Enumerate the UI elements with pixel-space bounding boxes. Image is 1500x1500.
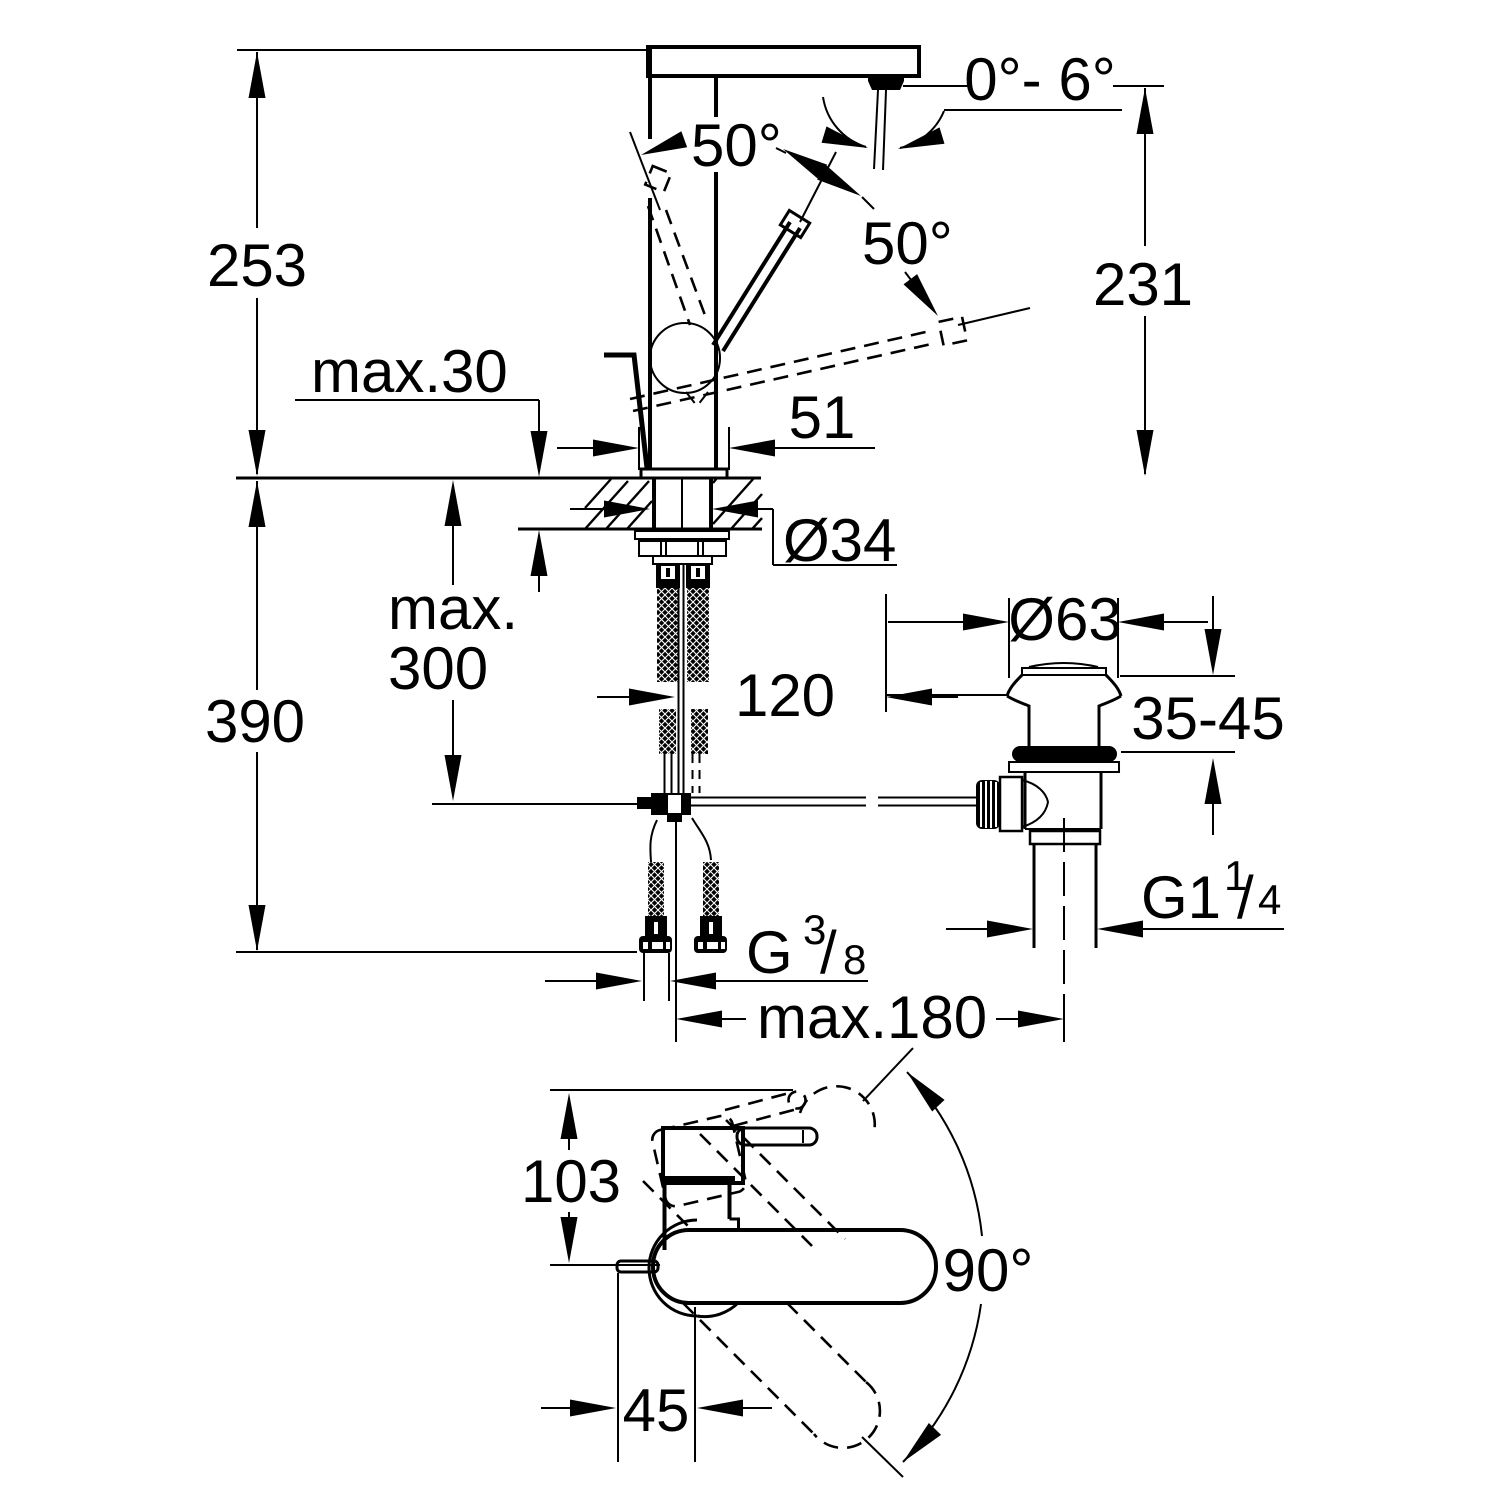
dimension 103	[561, 1093, 578, 1139]
svg-text:300: 300	[388, 635, 488, 702]
mounting nut	[639, 541, 726, 556]
drain washer plate	[1009, 762, 1119, 772]
horizontal rod to drain	[691, 798, 866, 806]
svg-text:50°: 50°	[691, 112, 782, 179]
small V mark below ball	[686, 392, 708, 406]
tee fitting	[637, 797, 651, 809]
dimension 120	[597, 696, 631, 698]
dimension 231	[1137, 88, 1154, 134]
faucet base flange	[641, 469, 727, 478]
dashed lever upper shaft	[648, 206, 690, 325]
spout stadium	[653, 1230, 936, 1303]
aerator	[868, 77, 904, 90]
braided hose lower right	[691, 709, 708, 754]
hose tail curve right	[692, 818, 711, 860]
base circle	[649, 1220, 739, 1317]
stud left nut	[645, 916, 667, 937]
stud right braid	[703, 862, 719, 916]
drain cap	[1029, 663, 1098, 667]
svg-text:390: 390	[205, 688, 305, 755]
svg-text:max.180: max.180	[757, 984, 987, 1051]
knob collar	[1000, 777, 1022, 831]
drain flare	[1007, 675, 1029, 746]
drain side knob	[976, 780, 1000, 829]
dashed lever rotated	[725, 1093, 797, 1126]
svg-text:G: G	[746, 919, 793, 986]
svg-text:45: 45	[623, 1377, 690, 1444]
extension line x886	[885, 594, 887, 712]
dimension max.300	[445, 480, 462, 526]
svg-text:253: 253	[207, 232, 307, 299]
body top view	[665, 1184, 730, 1250]
svg-text:0°- 6°: 0°- 6°	[964, 46, 1115, 113]
drain coupling nut	[1030, 831, 1100, 844]
dimension G 3/8	[545, 980, 596, 982]
svg-text:35-45: 35-45	[1131, 685, 1284, 752]
dashed swung handle edge	[726, 1120, 845, 1239]
svg-text:50°: 50°	[862, 210, 953, 277]
drain seal ring	[1012, 746, 1117, 762]
svg-text:Ø34: Ø34	[783, 507, 896, 574]
drain tailpipe	[1034, 844, 1096, 948]
extension line 103 top	[550, 1089, 793, 1091]
drain centerline	[1063, 818, 1065, 995]
stud right nut	[700, 916, 722, 937]
lower collar	[653, 556, 712, 564]
extension line rod level	[432, 803, 637, 805]
dimension G1 1/4	[946, 928, 987, 930]
extension line 103 bottom	[550, 1264, 660, 1266]
svg-text:max.30: max.30	[311, 338, 508, 405]
braided hose lower left	[659, 709, 676, 754]
arc 90 degrees	[907, 1072, 982, 1236]
tube right dashed	[693, 754, 700, 793]
leader line 0-6	[944, 109, 1122, 111]
dashed lever upper cap	[645, 166, 671, 192]
water stream	[874, 90, 886, 170]
svg-text:8: 8	[843, 936, 866, 983]
svg-text:51: 51	[789, 384, 856, 451]
faucet spout	[648, 47, 919, 76]
arrowhead left on arc	[822, 126, 871, 156]
leader arrowhead 50 left	[638, 131, 687, 163]
stud left hex flange	[639, 936, 672, 953]
radial tick top	[863, 1048, 913, 1101]
dimension 390	[249, 481, 266, 527]
svg-text:G1: G1	[1141, 864, 1221, 931]
countertop line	[236, 477, 761, 480]
svg-text:max.: max.	[388, 575, 518, 642]
dashed swung spout cap	[814, 1382, 880, 1448]
arrowhead right on arc	[896, 127, 945, 157]
dimension 0-6 degrees	[903, 85, 968, 87]
stud left thread shaft	[644, 953, 669, 1001]
axis line dashed lever upper	[630, 132, 660, 210]
svg-text:Ø63: Ø63	[1008, 586, 1121, 653]
pull rod top view	[617, 1261, 658, 1272]
arc 0-6 degrees	[823, 97, 866, 147]
drain valve body	[1025, 772, 1101, 829]
svg-text:120: 120	[735, 662, 835, 729]
dimension diameter 34	[570, 508, 604, 510]
faucet body left edge	[648, 47, 652, 470]
radial tick bottom	[862, 1437, 903, 1477]
lever axis line	[800, 152, 836, 222]
lever solid	[713, 210, 810, 351]
svg-text:103: 103	[521, 1148, 621, 1215]
extension line top (253 reference)	[237, 49, 650, 51]
handle top view	[663, 1128, 743, 1183]
threaded shank	[654, 478, 711, 528]
lever bar top view	[737, 1128, 817, 1145]
dimension max.180	[676, 1011, 722, 1028]
svg-text:/: /	[820, 919, 837, 986]
washer	[635, 531, 729, 539]
svg-text:/: /	[1237, 864, 1254, 931]
dashed lever lower	[630, 331, 930, 399]
stud right hex flange	[694, 936, 727, 953]
faucet body right edge	[714, 76, 718, 470]
pull rod handle	[604, 355, 647, 468]
dashed swung spout upper cap	[800, 1086, 875, 1136]
bowtie arrows 50 right	[779, 142, 827, 180]
hose fitting right	[686, 563, 710, 588]
faucet center extension line	[675, 816, 677, 1042]
ball joint	[650, 323, 720, 393]
pop-up rod vertical	[679, 563, 684, 793]
stud left braid	[648, 862, 664, 916]
svg-text:90°: 90°	[943, 1237, 1034, 1304]
dimension 45	[617, 1273, 619, 1462]
dimension 51	[638, 427, 640, 470]
braided hose upper right	[687, 588, 709, 682]
svg-text:231: 231	[1093, 251, 1193, 318]
tube left	[665, 754, 672, 793]
dashed swung spout edges	[787, 1303, 866, 1382]
bottom reference line 390	[236, 951, 637, 953]
drain flange underside extension	[886, 694, 1007, 696]
braided hose upper left	[657, 588, 679, 682]
counter bottom line	[518, 528, 762, 531]
dashed handle rotated	[650, 1114, 747, 1208]
counter hatching	[585, 479, 652, 529]
dimension diameter 63	[1008, 598, 1010, 678]
leader arrow 50 right	[905, 272, 930, 305]
hose fitting left	[656, 563, 680, 588]
dimension 35-45	[1120, 675, 1235, 677]
svg-text:4: 4	[1258, 876, 1281, 923]
axis line dashed lever lower	[958, 308, 1030, 325]
dimension 253	[249, 52, 266, 98]
hose tail curve left	[650, 820, 657, 862]
